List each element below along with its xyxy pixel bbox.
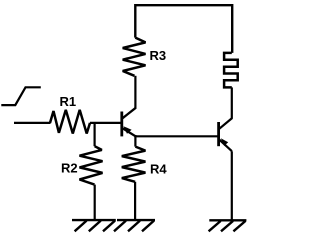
wire R4 to ground <box>134 182 136 220</box>
ground (R2) <box>72 220 116 231</box>
wire Q1 emitter node to Q2 base <box>134 135 217 137</box>
wire node down to R4 <box>134 135 136 147</box>
ground (R4) <box>114 220 155 231</box>
transistor Q2 <box>219 118 233 151</box>
resistor R3 <box>123 38 146 76</box>
svg-text:R3: R3 <box>150 48 167 63</box>
resistor R2 <box>80 146 103 184</box>
wire R2 to ground <box>94 185 96 220</box>
resistor R1 <box>50 110 90 134</box>
resistor R4 <box>122 147 146 182</box>
wire Q2 emitter to ground <box>231 151 233 220</box>
wire input to R1 <box>14 122 51 124</box>
wire R3 to Q1 collector <box>134 76 136 109</box>
svg-text:R4: R4 <box>150 161 167 176</box>
wire R1 to Q1 base <box>90 122 122 124</box>
node junction R1/R2 <box>93 123 95 146</box>
svg-text:R1: R1 <box>60 94 77 109</box>
svg-text:R2: R2 <box>61 161 78 176</box>
top rail wire <box>135 5 232 53</box>
inductor L1 <box>224 53 238 88</box>
input ramp waveform symbol <box>1 87 41 105</box>
ground (Q2 emitter) <box>209 220 247 231</box>
transistor Q1 <box>122 108 136 137</box>
wire inductor to Q2 collector <box>231 87 233 118</box>
